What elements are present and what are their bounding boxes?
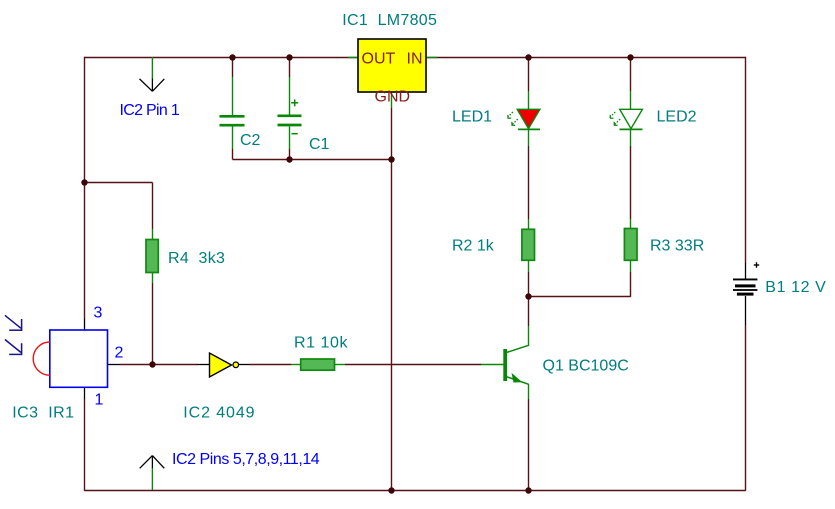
label LED2 [657, 109, 697, 126]
wire node to inverter input [153, 364, 211, 366]
svg-text:3: 3 [94, 305, 103, 322]
wire R2 to node [528, 261, 530, 297]
label IC1 LM7805 [342, 12, 437, 29]
wire branch to R4 [85, 183, 153, 241]
label IC2 Pins 5,7,8,9,11,14 [172, 451, 320, 468]
svg-text:C2: C2 [240, 132, 261, 149]
wire node to Q1 collector [528, 297, 530, 347]
svg-text:R2 1k: R2 1k [452, 238, 495, 255]
pin label IN [407, 51, 423, 68]
photo receiver IC3 IR1 body [50, 330, 108, 387]
junction node emitter bottom rail [525, 487, 531, 493]
label R1 10k [294, 335, 348, 352]
svg-text:1: 1 [95, 392, 104, 409]
arrow from IC2 pins to bottom rail [140, 456, 165, 490]
resistor R2 [522, 229, 535, 260]
label R4 3k3 [168, 250, 225, 267]
wire Q1 base lead [481, 364, 504, 366]
label C1 [309, 136, 330, 153]
svg-text:LED1: LED1 [452, 109, 492, 126]
wire Q1 emitter to bottom rail [528, 384, 530, 491]
IR1 dome [33, 342, 50, 375]
light arrow upper at IR1 [5, 315, 22, 331]
regulator IC1 LM7805 body [358, 39, 426, 92]
svg-text:IN: IN [407, 51, 423, 68]
LED2 light arrow lower [614, 119, 620, 125]
wire left rail [84, 57, 86, 318]
junction node R2 R3 collector [525, 293, 531, 299]
LED2 cathode bar [620, 128, 643, 130]
wire top rail right segment [426, 57, 746, 59]
pin number 1 [95, 392, 104, 409]
svg-text:C1: C1 [309, 136, 330, 153]
wire top rail left segment [85, 57, 359, 59]
svg-text:IC2 4049: IC2 4049 [183, 404, 255, 421]
LED1 light arrow upper [508, 112, 513, 119]
svg-text:Q1 BC109C: Q1 BC109C [543, 358, 629, 375]
resistor R4 [146, 240, 158, 273]
junction node GND bottom rail [388, 487, 394, 493]
wire R4 bottom to node [152, 272, 154, 365]
resistor R3 [624, 229, 637, 261]
pin label GND [375, 89, 411, 106]
svg-text:IC2 Pins 5,7,8,9,11,14: IC2 Pins 5,7,8,9,11,14 [172, 451, 320, 468]
battery B1 plate long lower [733, 289, 757, 291]
wire left rail lower [84, 399, 86, 491]
label R2 1k [452, 238, 495, 255]
capacitor C2 plates [220, 116, 245, 125]
svg-text:R4 3k3: R4 3k3 [168, 250, 225, 267]
transistor Q1 emitter arrow [512, 373, 523, 383]
svg-text:R3 33R: R3 33R [650, 238, 704, 255]
inverter bubble [233, 362, 239, 368]
svg-text:2: 2 [115, 345, 124, 362]
label IC3 IR1 [12, 404, 74, 421]
wire IC1 GND stem [391, 92, 393, 160]
wire capacitor bottom rail [233, 159, 392, 161]
svg-text:IC3 IR1: IC3 IR1 [12, 404, 74, 421]
LED2 triangle [620, 109, 643, 128]
LED2 light arrow upper [610, 112, 615, 119]
LED1 light arrow lower [512, 119, 518, 125]
svg-text:R1 10k: R1 10k [294, 335, 348, 352]
svg-text:GND: GND [375, 89, 411, 106]
wire GND column to bottom rail [391, 160, 393, 491]
polarity plus C1 [291, 99, 298, 106]
wire IR1 pin 1 stub [84, 387, 86, 399]
polarity minus C1 [292, 133, 298, 135]
label IC2 Pin 1 [120, 102, 180, 119]
transistor Q1 emitter lead [506, 376, 529, 384]
wire LED1 column upper [528, 57, 530, 110]
wire LED1 cathode to R2 [528, 130, 530, 230]
label B1 12 V [765, 279, 826, 296]
wire R3 to bottom node [630, 261, 632, 297]
junction node C1 top [286, 54, 292, 60]
label Q1 BC109C [543, 358, 629, 375]
pin number 3 [94, 305, 103, 322]
arrow into IC2 pin 1 [140, 57, 165, 91]
junction node GND column [388, 156, 394, 162]
battery plus sign [754, 262, 759, 267]
pin label OUT [362, 51, 396, 68]
wire right rail upper [745, 57, 747, 263]
battery B1 plate thick bottom [737, 293, 754, 296]
svg-text:IC2 Pin 1: IC2 Pin 1 [120, 102, 180, 119]
label C2 [240, 132, 261, 149]
label LED1 [452, 109, 492, 126]
wire IR1 pin 3 stub [84, 318, 86, 330]
wire C1 stem [289, 57, 291, 160]
svg-text:IC1 LM7805: IC1 LM7805 [342, 12, 437, 29]
wire LED2 cathode to R3 [630, 130, 632, 229]
svg-text:LED2: LED2 [657, 109, 697, 126]
svg-text:B1 12 V: B1 12 V [765, 279, 826, 296]
battery B1 plate thick upper [735, 284, 756, 287]
pin number 2 [115, 345, 124, 362]
wire LED2 column upper [630, 57, 632, 110]
junction node inverter input [149, 361, 155, 367]
junction node C1 bottom [286, 156, 292, 162]
transistor Q1 collector lead [506, 345, 529, 353]
transistor Q1 base bar [503, 349, 507, 381]
junction node LED1 top [525, 54, 531, 60]
capacitor C1 plates [278, 116, 302, 125]
wire IR1 pin 2 to node [108, 364, 153, 366]
LED1 triangle [517, 109, 540, 128]
wire C2 stem [232, 57, 234, 160]
battery B1 plate long top [733, 279, 757, 281]
LED1 cathode bar [518, 128, 540, 130]
label R3 33R [650, 238, 704, 255]
wire right rail lower [745, 325, 747, 491]
junction node LED2 top [627, 54, 633, 60]
junction node left rail R4 branch [81, 179, 87, 185]
svg-text:OUT: OUT [362, 51, 396, 68]
wire inverter output to R1 [239, 364, 301, 366]
wire R3 bottom horizontal to node [529, 296, 631, 298]
junction node C2 top [229, 54, 235, 60]
inverter gate IC2 [210, 353, 232, 377]
wire R1 to Q1 base [335, 364, 482, 366]
wire battery top lead [745, 263, 747, 279]
label IC2 4049 [183, 404, 255, 421]
wire battery bottom lead [745, 296, 747, 325]
resistor R1 [301, 359, 335, 370]
light arrow lower at IR1 [5, 340, 22, 356]
wire bottom rail [85, 490, 746, 492]
